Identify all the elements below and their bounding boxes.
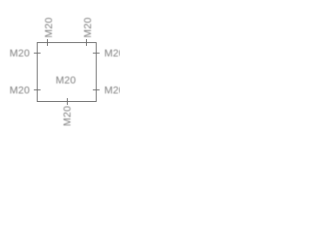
- svg-text:M20: M20: [10, 48, 31, 59]
- svg-text:M20: M20: [44, 17, 55, 38]
- svg-text:M20: M20: [10, 85, 31, 96]
- gland entry tick right-upper: [93, 52, 100, 54]
- gland entry tick left-upper: [34, 52, 41, 54]
- gland entry tick right-lower: [93, 89, 100, 91]
- gland entry tick top-left: [46, 39, 48, 46]
- gland entry tick top-right: [85, 39, 87, 46]
- gland entry tick bottom: [66, 98, 68, 105]
- enclosure outline: [37, 43, 96, 102]
- svg-text:M20: M20: [104, 48, 120, 59]
- gland entry tick left-lower: [34, 89, 41, 91]
- svg-text:M20: M20: [56, 75, 77, 86]
- svg-text:M20: M20: [63, 106, 74, 127]
- svg-text:M20: M20: [83, 17, 94, 38]
- svg-text:M20: M20: [104, 85, 120, 96]
